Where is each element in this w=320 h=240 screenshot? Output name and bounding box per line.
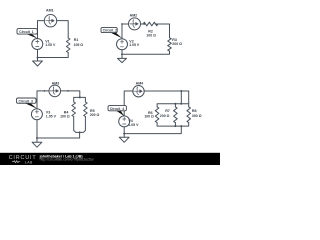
svg-text:R7: R7	[165, 109, 170, 113]
svg-text:200 Ω: 200 Ω	[160, 114, 170, 118]
svg-text:1.05 V: 1.05 V	[46, 114, 57, 118]
node dot rail	[180, 90, 182, 92]
node dot right of AM3	[67, 90, 69, 92]
wire merge to bottom rail	[37, 132, 80, 138]
top bar of parallel pair	[74, 97, 86, 102]
node junction	[37, 57, 39, 59]
node junction	[121, 53, 123, 55]
logo zigzag	[12, 161, 20, 163]
svg-text:1.05 V: 1.05 V	[129, 43, 140, 47]
ammeter AM3	[49, 85, 61, 97]
svg-text:1.05 V: 1.05 V	[128, 123, 139, 127]
resistor R2	[143, 22, 158, 26]
wire V3 up and rail	[37, 91, 49, 109]
wire R7 stub bottom	[174, 123, 176, 126]
svg-text:R8: R8	[192, 109, 197, 113]
wire feed down to top bar	[180, 91, 182, 104]
ammeter AM4	[133, 86, 144, 97]
ammeter AM2	[129, 18, 141, 30]
wire R2 to R3	[155, 24, 169, 38]
svg-text:Circuit_4: Circuit_4	[110, 107, 124, 111]
flag Circuit_4	[116, 111, 124, 117]
wire V3 to ground	[36, 120, 38, 143]
voltage source V4	[119, 116, 130, 127]
svg-text:AM2: AM2	[130, 13, 138, 17]
wire R8 top connect	[188, 91, 190, 104]
svg-text:Circuit_1: Circuit_1	[19, 30, 33, 34]
resistor R3	[168, 38, 172, 51]
ground	[32, 142, 42, 147]
svg-text:100 Ω: 100 Ω	[146, 33, 156, 37]
resistor R4	[72, 102, 76, 117]
wire AM2 to R2	[141, 23, 144, 25]
svg-text:Circuit_3: Circuit_3	[19, 99, 33, 103]
wire AM3 to parallel pair	[61, 91, 80, 98]
wire V4 to ground	[123, 127, 125, 137]
node dots bottom bar	[174, 125, 176, 127]
svg-text:Circuit_2: Circuit_2	[103, 29, 117, 33]
resistor R5	[84, 102, 88, 117]
svg-text:AM3: AM3	[52, 82, 60, 86]
node junction	[123, 133, 125, 135]
wire R3 down and bottom rail	[122, 51, 170, 54]
wire AM4 right rail	[144, 90, 189, 92]
svg-text:1.05 V: 1.05 V	[45, 43, 56, 47]
wire top-right rail	[57, 21, 68, 38]
node dot left of AM3	[44, 90, 46, 92]
svg-text:200 Ω: 200 Ω	[90, 113, 100, 117]
ground	[119, 137, 129, 142]
node junction	[36, 137, 38, 139]
bottom bar	[157, 123, 189, 126]
node dot left of AM2	[121, 23, 123, 25]
voltage source V1	[32, 39, 43, 50]
flag Circuit_1	[26, 34, 38, 39]
node dot top bar	[79, 96, 81, 98]
bottom merge of parallel pair	[74, 117, 86, 133]
voltage source V2	[117, 39, 128, 50]
node dot right of AM2	[143, 23, 145, 25]
wire drain to bottom rail	[124, 126, 181, 134]
ground	[33, 61, 43, 66]
wire V4 up and rail	[124, 91, 133, 116]
svg-text:200 Ω: 200 Ω	[172, 42, 182, 46]
svg-text:http://circuitlab.com/c/7hp8S2: http://circuitlab.com/c/7hp8S2uz5u/	[40, 157, 94, 161]
node dot bottom merge	[79, 131, 81, 133]
voltage source V3	[31, 109, 42, 120]
svg-text:100 Ω: 100 Ω	[60, 114, 70, 118]
flag Circuit_2	[110, 32, 122, 38]
node dots top bar	[174, 103, 176, 105]
resistor R1	[66, 38, 70, 53]
svg-text:AM1: AM1	[46, 9, 54, 13]
wire top-left rail	[38, 21, 45, 39]
flag Circuit_3	[25, 103, 37, 108]
svg-text:AM4: AM4	[136, 81, 144, 85]
wire R7 stub top	[174, 104, 176, 107]
wire V2 up and rail	[122, 24, 129, 39]
top bar	[157, 104, 189, 107]
wire V1 to ground	[37, 50, 39, 62]
resistor R7	[174, 107, 178, 123]
wire right-bottom	[38, 53, 69, 58]
wire V2 to ground	[121, 50, 123, 59]
svg-text:100 Ω: 100 Ω	[144, 114, 154, 118]
svg-text:300 Ω: 300 Ω	[192, 114, 202, 118]
svg-text:LAB: LAB	[25, 160, 33, 164]
svg-text:105 Ω: 105 Ω	[74, 43, 84, 47]
resistor R8	[187, 107, 191, 123]
resistor R6	[155, 107, 159, 123]
ground	[118, 58, 127, 62]
ammeter AM1	[44, 15, 56, 27]
svg-text:R1: R1	[74, 38, 79, 42]
